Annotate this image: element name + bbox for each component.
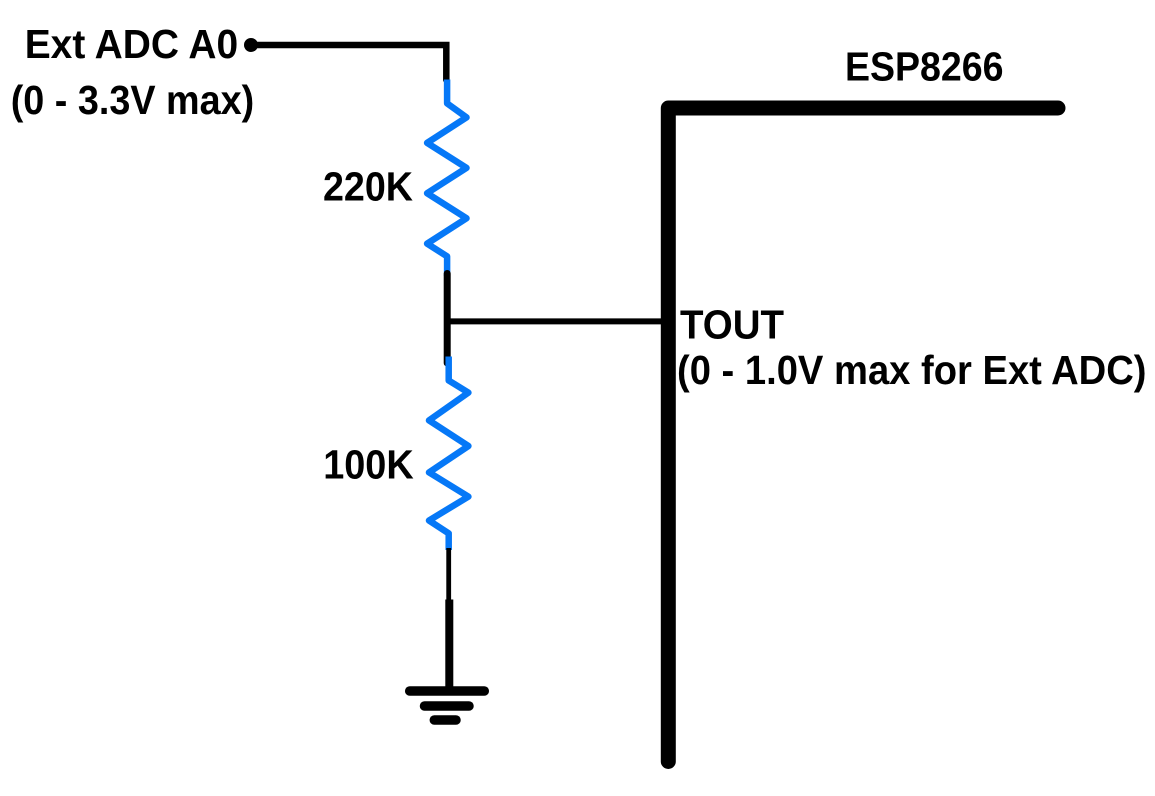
- ground symbol: [410, 600, 485, 721]
- resistor R1 220K: [427, 80, 466, 277]
- ESP8266 chip boundary line: [668, 108, 1058, 762]
- node A0 terminal dot: [244, 38, 258, 52]
- wire junction between R1 and R2: [444, 274, 451, 364]
- wire R2 to ground: [446, 548, 451, 608]
- svg-text:(0 - 3.3V max): (0 - 3.3V max): [11, 77, 255, 123]
- resistor R2 100K: [429, 357, 468, 551]
- svg-text:100K: 100K: [323, 441, 414, 487]
- svg-text:Ext ADC A0: Ext ADC A0: [25, 21, 239, 67]
- svg-text:TOUT: TOUT: [680, 301, 784, 347]
- wire A0 to R1: [251, 45, 446, 80]
- svg-text:220K: 220K: [323, 164, 413, 210]
- wire TOUT node to ESP8266: [447, 318, 664, 324]
- svg-text:(0 - 1.0V max for Ext ADC): (0 - 1.0V max for Ext ADC): [677, 347, 1147, 393]
- svg-text:ESP8266: ESP8266: [845, 44, 1004, 90]
